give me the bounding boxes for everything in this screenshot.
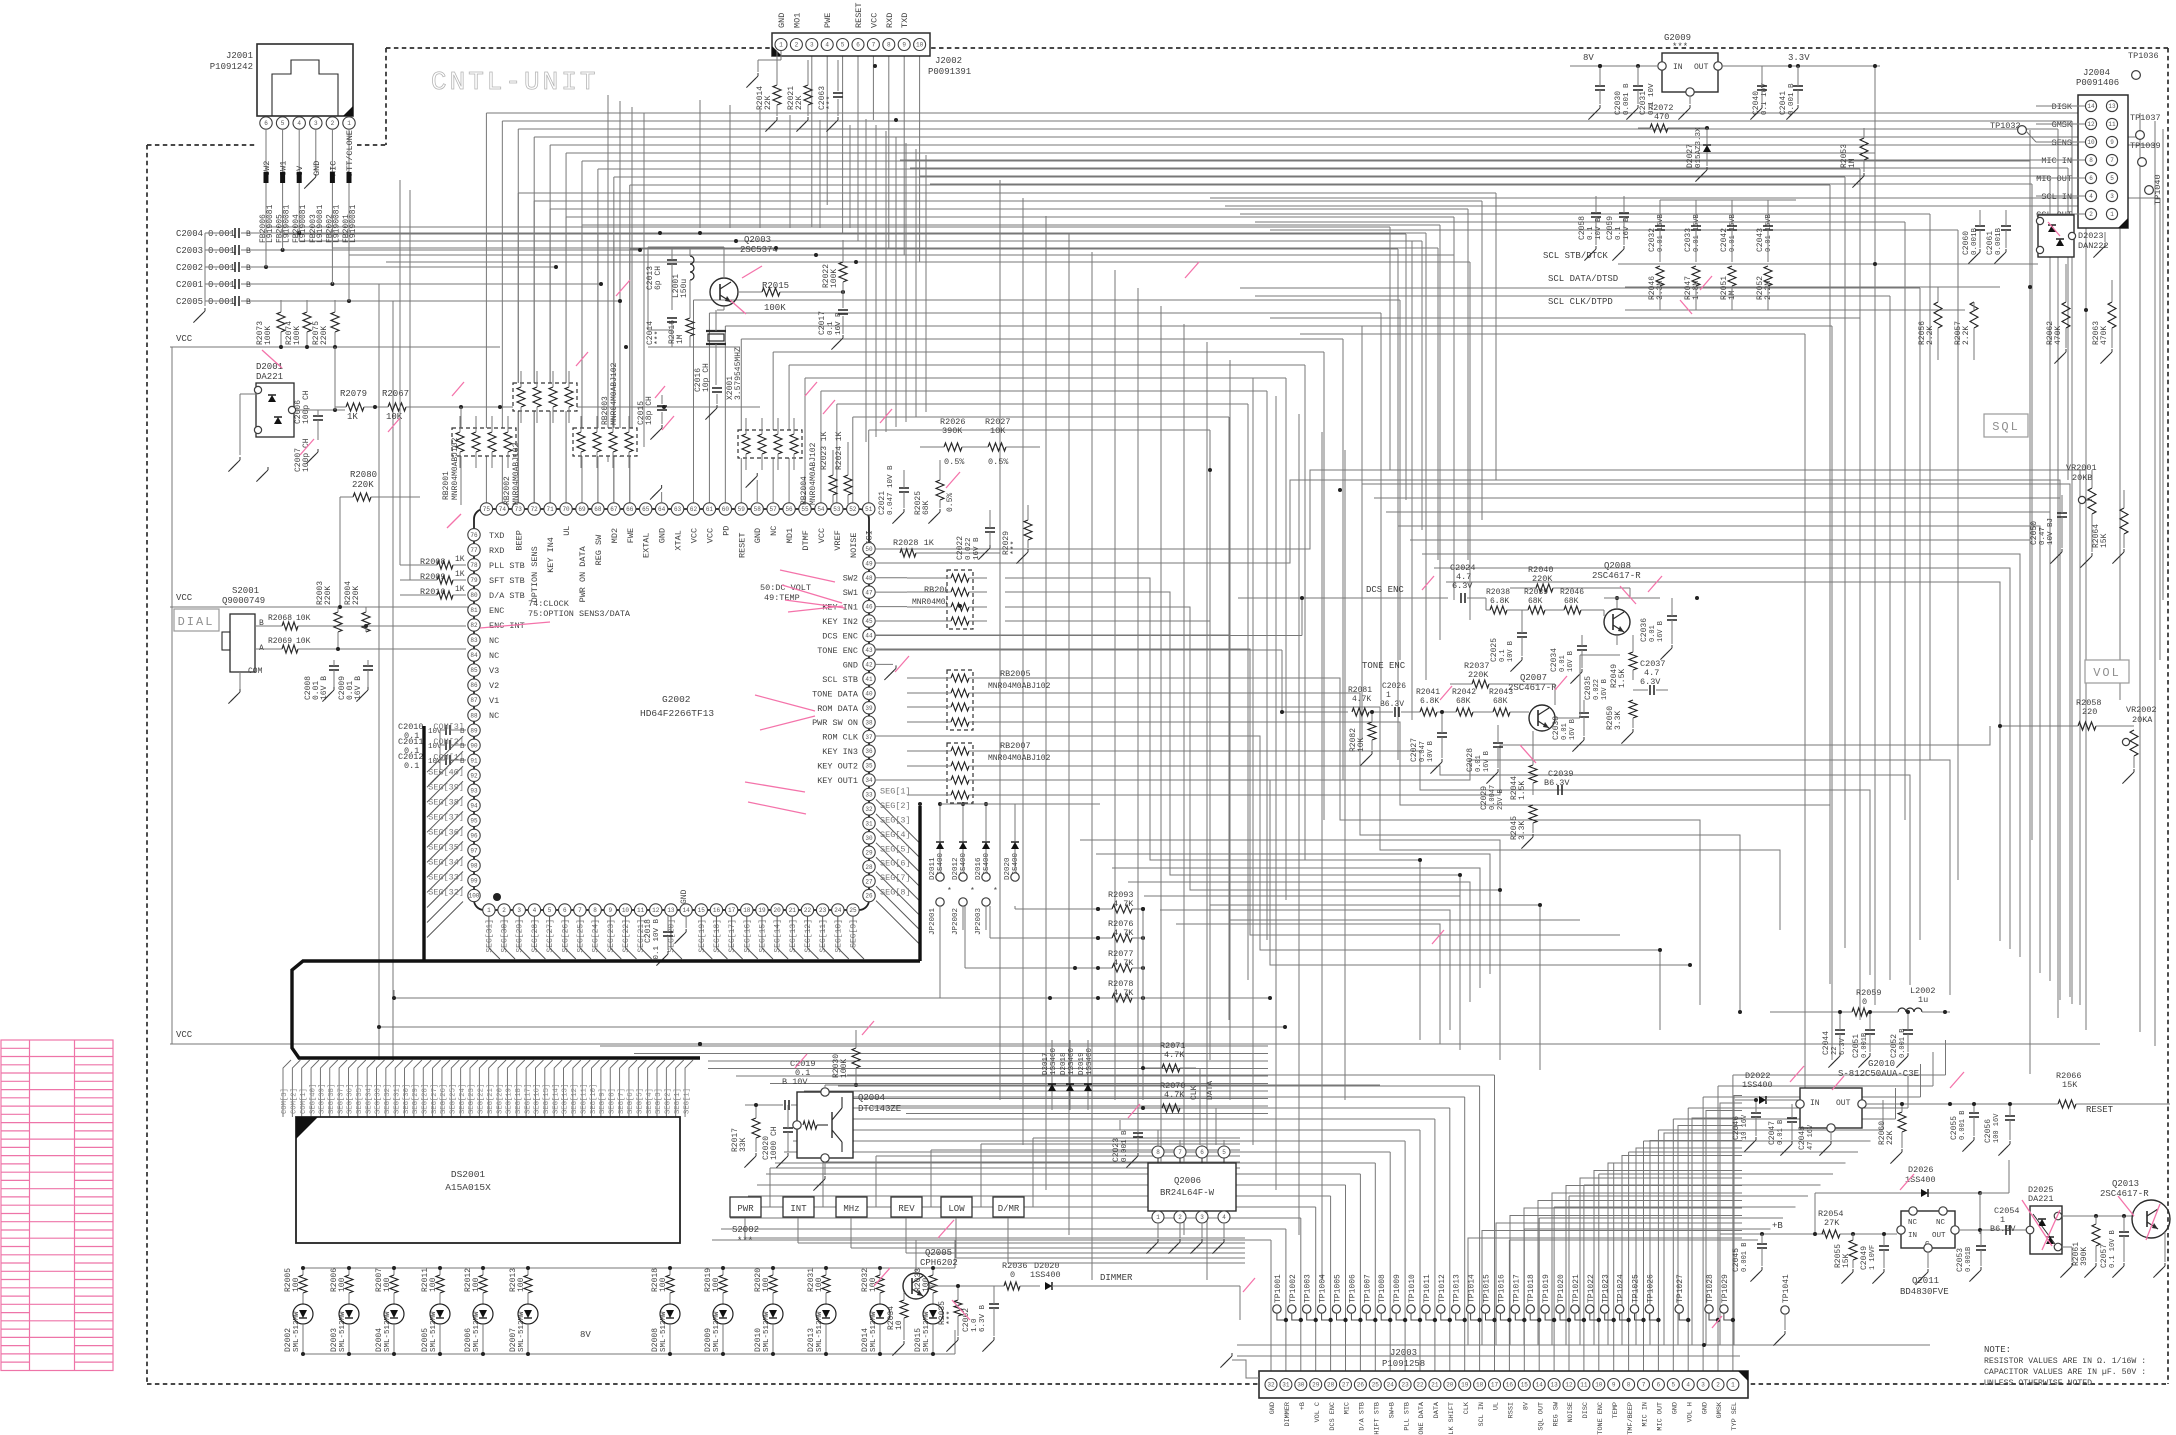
- svg-text:8: 8: [887, 42, 891, 49]
- svg-text:SEG[40]: SEG[40]: [309, 1084, 317, 1114]
- svg-text:22K: 22K: [795, 95, 804, 110]
- svg-text:RXD: RXD: [885, 13, 895, 28]
- svg-text:TP1036: TP1036: [2128, 51, 2159, 61]
- svg-text:SEG[38]: SEG[38]: [428, 797, 464, 807]
- svg-text:95: 95: [470, 817, 478, 824]
- svg-text:18p CH: 18p CH: [645, 396, 654, 425]
- svg-text:100: 100: [517, 1277, 526, 1292]
- svg-text:SEG[9]: SEG[9]: [849, 919, 858, 948]
- svg-text:C2048: C2048: [1798, 1126, 1807, 1150]
- svg-text:75:OPTION SENS3/DATA: 75:OPTION SENS3/DATA: [528, 609, 631, 619]
- svg-text:DCS ENC: DCS ENC: [822, 632, 858, 642]
- svg-text:62: 62: [690, 506, 698, 513]
- svg-text:37: 37: [865, 734, 873, 741]
- svg-text:53: 53: [833, 506, 841, 513]
- svg-text:VCC: VCC: [817, 528, 827, 543]
- svg-text:IN: IN: [1908, 1232, 1917, 1240]
- svg-text:27K: 27K: [1824, 1218, 1840, 1228]
- svg-text:35: 35: [865, 763, 873, 770]
- svg-text:R2041: R2041: [1416, 688, 1440, 697]
- svg-text:SEG[40]: SEG[40]: [428, 767, 464, 777]
- svg-text:16V B: 16V B: [835, 312, 843, 335]
- svg-text:61: 61: [706, 506, 714, 513]
- svg-text:TONE ENC: TONE ENC: [1362, 661, 1406, 671]
- svg-text:VCC: VCC: [176, 1030, 193, 1040]
- svg-text:0.022: 0.022: [965, 537, 973, 560]
- svg-text:90: 90: [470, 742, 478, 749]
- svg-text:16: 16: [713, 907, 721, 914]
- svg-text:SEG[16]: SEG[16]: [534, 1084, 542, 1114]
- svg-text:6: 6: [856, 42, 860, 49]
- svg-text:V2: V2: [489, 681, 499, 691]
- svg-text:100: 100: [762, 1277, 771, 1292]
- svg-text:SCL STB: SCL STB: [822, 675, 858, 685]
- svg-text:0: 0: [1010, 1270, 1015, 1280]
- svg-text:5: 5: [1222, 1149, 1226, 1156]
- svg-text:0.1: 0.1: [827, 321, 835, 335]
- svg-text:D2005: D2005: [421, 1328, 430, 1352]
- svg-text:100: 100: [869, 1277, 878, 1292]
- svg-text:C2029: C2029: [1480, 786, 1489, 810]
- svg-text:JP2003: JP2003: [975, 907, 983, 935]
- svg-text:10K: 10K: [296, 637, 311, 646]
- svg-text:MIC IN: MIC IN: [1642, 1402, 1650, 1426]
- svg-text:D2004: D2004: [375, 1328, 384, 1352]
- svg-text:L9190081: L9190081: [332, 204, 341, 243]
- svg-text:23: 23: [1401, 1382, 1409, 1389]
- svg-text:10: 10: [622, 907, 630, 914]
- svg-text:3: 3: [810, 42, 814, 49]
- svg-text:SEG[13]: SEG[13]: [789, 919, 798, 953]
- svg-text:GND: GND: [1672, 1402, 1680, 1414]
- svg-text:NC: NC: [489, 711, 499, 721]
- svg-text:63: 63: [674, 506, 682, 513]
- svg-text:6: 6: [2089, 175, 2093, 182]
- svg-text:015AZ3.3X: 015AZ3.3X: [1695, 127, 1703, 168]
- svg-text:SEG[28]: SEG[28]: [531, 919, 540, 953]
- svg-text:31: 31: [1282, 1382, 1290, 1389]
- svg-text:0.1 10V B: 0.1 10V B: [2109, 1230, 2117, 1268]
- svg-text:100: 100: [469, 893, 480, 900]
- svg-text:C2023: C2023: [1112, 1138, 1121, 1162]
- svg-text:TP1004: TP1004: [1319, 1274, 1328, 1303]
- svg-text:4: 4: [297, 120, 301, 127]
- svg-text:SML-512MW: SML-512MW: [763, 1311, 771, 1352]
- svg-text:0.001B: 0.001B: [1965, 1247, 1973, 1272]
- svg-text:9: 9: [608, 907, 612, 914]
- svg-text:TYP SEL: TYP SEL: [1731, 1402, 1739, 1431]
- svg-text:R2046: R2046: [1560, 588, 1584, 597]
- svg-text:DIMMER: DIMMER: [1100, 1273, 1133, 1283]
- svg-text:***: ***: [1672, 42, 1688, 52]
- svg-text:MNR04M0ABJ102: MNR04M0ABJ102: [451, 437, 460, 500]
- svg-text:SEG[6]: SEG[6]: [880, 859, 911, 869]
- svg-text:JP2001: JP2001: [929, 907, 937, 935]
- svg-text:C2036: C2036: [1640, 618, 1649, 642]
- svg-text:28: 28: [865, 864, 873, 871]
- svg-text:+B: +B: [1299, 1402, 1307, 1410]
- svg-text:TP1020: TP1020: [1557, 1274, 1566, 1303]
- svg-text:COM[1]: COM[1]: [300, 1088, 308, 1114]
- svg-text:4.7K: 4.7K: [1352, 695, 1371, 704]
- svg-text:SCL IN: SCL IN: [2041, 192, 2072, 202]
- svg-text:TXD: TXD: [900, 13, 910, 28]
- svg-text:19: 19: [1461, 1382, 1469, 1389]
- svg-text:SEG[35]: SEG[35]: [428, 842, 464, 852]
- svg-text:2SC4617-R: 2SC4617-R: [1592, 571, 1641, 581]
- svg-text:21: 21: [789, 907, 797, 914]
- svg-text:12: 12: [652, 907, 660, 914]
- svg-text:R2079: R2079: [340, 389, 367, 399]
- svg-text:R2067: R2067: [382, 389, 409, 399]
- svg-text:SEG[11]: SEG[11]: [580, 1084, 588, 1114]
- svg-text:C2028: C2028: [1466, 748, 1475, 772]
- svg-text:100K: 100K: [830, 269, 839, 288]
- svg-text:8: 8: [1156, 1149, 1160, 1156]
- svg-text:C2032: C2032: [1648, 228, 1657, 252]
- svg-text:D/MR: D/MR: [998, 1204, 1020, 1214]
- svg-text:COM[3]: COM[3]: [281, 1088, 289, 1114]
- svg-text:RXD: RXD: [489, 546, 504, 556]
- svg-text:R2080: R2080: [350, 470, 377, 480]
- svg-text:24: 24: [1387, 1382, 1395, 1389]
- svg-text:10: 10: [916, 42, 924, 49]
- svg-text:72: 72: [531, 506, 539, 513]
- svg-text:TP1041: TP1041: [1782, 1274, 1791, 1303]
- svg-text:19: 19: [758, 907, 766, 914]
- svg-text:1 10VF: 1 10VF: [1869, 1245, 1877, 1270]
- svg-text:L9190081: L9190081: [299, 204, 308, 243]
- svg-text:MHz: MHz: [843, 1204, 859, 1214]
- svg-text:TONE ENC: TONE ENC: [817, 646, 858, 656]
- svg-text:4: 4: [533, 907, 537, 914]
- svg-text:1M: 1M: [676, 334, 685, 344]
- svg-text:Q2007: Q2007: [1520, 673, 1547, 683]
- svg-text:C2061: C2061: [1986, 231, 1995, 255]
- svg-text:TP1018: TP1018: [1527, 1274, 1536, 1303]
- svg-text:SEG[26]: SEG[26]: [440, 1084, 448, 1114]
- svg-text:81: 81: [470, 607, 478, 614]
- svg-text:TP1003: TP1003: [1304, 1274, 1313, 1303]
- svg-text:C2038: C2038: [1552, 716, 1561, 740]
- svg-text:0.001: 0.001: [208, 246, 235, 256]
- svg-text:84: 84: [470, 652, 478, 659]
- svg-text:6: 6: [1657, 1382, 1661, 1389]
- svg-text:10: 10: [2087, 139, 2095, 146]
- svg-text:66: 66: [626, 506, 634, 513]
- svg-text:C2025: C2025: [1490, 638, 1499, 662]
- svg-text:B6.3V: B6.3V: [1380, 700, 1404, 709]
- svg-text:39: 39: [865, 705, 873, 712]
- svg-text:SEG[5]: SEG[5]: [880, 844, 911, 854]
- svg-text:D2009: D2009: [704, 1328, 713, 1352]
- svg-text:B: B: [246, 298, 251, 307]
- svg-text:C2046: C2046: [1732, 1116, 1741, 1140]
- svg-text:J2004: J2004: [2083, 68, 2110, 78]
- svg-text:RB2004: RB2004: [800, 476, 809, 505]
- svg-text:9: 9: [1612, 1382, 1616, 1389]
- svg-text:65: 65: [642, 506, 650, 513]
- svg-text:SEG[8]: SEG[8]: [608, 1088, 616, 1114]
- svg-text:56: 56: [785, 506, 793, 513]
- svg-text:G2002: G2002: [662, 694, 691, 705]
- svg-text:13: 13: [667, 907, 675, 914]
- svg-text:0.5%: 0.5%: [988, 457, 1009, 467]
- svg-text:CLK: CLK: [1463, 1401, 1471, 1414]
- svg-text:SEG[5]: SEG[5]: [637, 1088, 645, 1114]
- svg-text:PWE: PWE: [823, 13, 833, 28]
- svg-text:2: 2: [331, 120, 335, 127]
- svg-text:RESISTOR VALUES ARE IN Ω. 1/16: RESISTOR VALUES ARE IN Ω. 1/16W :: [1984, 1356, 2146, 1366]
- svg-text:SEG[1]: SEG[1]: [683, 1088, 691, 1114]
- svg-text:R2024 1K: R2024 1K: [835, 431, 844, 470]
- svg-text:SML-512MW: SML-512MW: [870, 1311, 878, 1352]
- svg-text:RB2001: RB2001: [442, 471, 451, 500]
- svg-text:D2002: D2002: [284, 1328, 293, 1352]
- svg-text:VCC: VCC: [869, 13, 879, 28]
- svg-text:0.1: 0.1: [1615, 226, 1623, 240]
- svg-text:0.0047: 0.0047: [1489, 785, 1497, 810]
- svg-text:9: 9: [2110, 139, 2114, 146]
- svg-text:C2005: C2005: [176, 297, 203, 307]
- svg-text:SML-512MW: SML-512MW: [518, 1311, 526, 1352]
- svg-text:SEG[35]: SEG[35]: [356, 1084, 364, 1114]
- svg-text:SEG[31]: SEG[31]: [393, 1084, 401, 1114]
- svg-text:KEY IN2: KEY IN2: [822, 617, 858, 627]
- svg-text:B: B: [246, 247, 251, 256]
- svg-text:BD4830FVE: BD4830FVE: [1900, 1287, 1949, 1297]
- svg-text:DATA: DATA: [1433, 1401, 1441, 1418]
- svg-text:TXD: TXD: [489, 531, 504, 541]
- svg-text:6: 6: [1200, 1149, 1204, 1156]
- svg-text:10 16V: 10 16V: [1741, 1114, 1749, 1140]
- svg-text:64: 64: [658, 506, 666, 513]
- svg-text:D2014: D2014: [861, 1328, 870, 1352]
- svg-text:Q2006: Q2006: [1174, 1176, 1201, 1186]
- svg-text:SW+B: SW+B: [1388, 1402, 1396, 1418]
- svg-text:0.1 10V B: 0.1 10V B: [653, 919, 661, 960]
- svg-text:67: 67: [610, 506, 618, 513]
- svg-text:10: 10: [895, 1320, 904, 1330]
- svg-text:KEY OUT1: KEY OUT1: [817, 776, 858, 786]
- svg-text:SEG[19]: SEG[19]: [698, 919, 707, 953]
- svg-text:78: 78: [470, 562, 478, 569]
- svg-text:38: 38: [865, 719, 873, 726]
- svg-text:0.001 B: 0.001 B: [1788, 83, 1796, 115]
- svg-text:SEG[22]: SEG[22]: [478, 1084, 486, 1114]
- svg-text:MIC OUT: MIC OUT: [2036, 174, 2072, 184]
- svg-text:DTMF/BEEP: DTMF/BEEP: [1627, 1402, 1635, 1435]
- svg-text:D/A STB: D/A STB: [1359, 1402, 1367, 1431]
- svg-text:L9190081: L9190081: [316, 204, 325, 243]
- svg-text:27: 27: [1342, 1382, 1350, 1389]
- svg-text:CLK SHIFT: CLK SHIFT: [1448, 1402, 1456, 1435]
- svg-text:D2027: D2027: [1686, 144, 1695, 168]
- svg-text:76: 76: [470, 532, 478, 539]
- svg-text:DISK: DISK: [2052, 102, 2073, 112]
- svg-text:0.001B: 0.001B: [1861, 1033, 1869, 1058]
- svg-text:SEG[34]: SEG[34]: [365, 1084, 373, 1114]
- svg-text:TEMP: TEMP: [1612, 1402, 1620, 1418]
- svg-text:13: 13: [2108, 103, 2116, 110]
- svg-text:16V B: 16V B: [973, 537, 981, 560]
- svg-text:VOL H: VOL H: [1686, 1402, 1694, 1422]
- svg-text:C2055: C2055: [1950, 1116, 1959, 1140]
- svg-text:C2041: C2041: [1779, 91, 1788, 115]
- svg-text:20: 20: [774, 907, 782, 914]
- svg-text:SEG[23]: SEG[23]: [607, 919, 616, 953]
- svg-text:SML-512MW: SML-512MW: [713, 1311, 721, 1352]
- svg-text:C2001: C2001: [176, 280, 203, 290]
- svg-text:MNR04M0ABJ102: MNR04M0ABJ102: [988, 754, 1051, 763]
- svg-text:SEG[17]: SEG[17]: [524, 1084, 532, 1114]
- svg-text:TP1015: TP1015: [1483, 1274, 1492, 1303]
- svg-text:0.1: 0.1: [1499, 649, 1507, 662]
- svg-text:220K: 220K: [1468, 670, 1489, 680]
- svg-text:FWE: FWE: [626, 528, 636, 543]
- svg-text:45: 45: [865, 618, 873, 625]
- svg-text:Q2005: Q2005: [925, 1248, 952, 1258]
- svg-text:16: 16: [1506, 1382, 1514, 1389]
- svg-text:6: 6: [264, 120, 268, 127]
- svg-text:11: 11: [637, 907, 645, 914]
- svg-text:SEG[31]: SEG[31]: [485, 919, 494, 953]
- svg-text:VREF: VREF: [833, 530, 843, 550]
- svg-text:KEY OUT2: KEY OUT2: [817, 762, 858, 772]
- svg-text:SEG[7]: SEG[7]: [618, 1088, 626, 1114]
- svg-text:VCC: VCC: [705, 528, 715, 543]
- svg-text:*: *: [970, 887, 975, 896]
- svg-text:B: B: [246, 230, 251, 239]
- svg-text:7: 7: [872, 42, 876, 49]
- svg-text:1000 CH: 1000 CH: [770, 1126, 779, 1160]
- svg-text:100 16V: 100 16V: [1993, 1113, 2001, 1143]
- svg-text:SW2: SW2: [843, 574, 858, 584]
- svg-text:SQL: SQL: [1992, 420, 2020, 434]
- svg-text:SEG[39]: SEG[39]: [319, 1084, 327, 1114]
- svg-text:1K: 1K: [455, 570, 465, 579]
- svg-text:C2027: C2027: [1410, 738, 1419, 762]
- svg-text:MNR04M0ABJ102: MNR04M0ABJ102: [610, 362, 619, 425]
- svg-text:*: *: [947, 887, 952, 896]
- svg-text:SEG[18]: SEG[18]: [515, 1084, 523, 1114]
- svg-text:TONE DATA: TONE DATA: [1418, 1401, 1426, 1435]
- svg-text:SQL OUT: SQL OUT: [1537, 1402, 1545, 1431]
- svg-text:NC: NC: [489, 651, 499, 661]
- svg-text:82: 82: [470, 622, 478, 629]
- svg-text:96: 96: [470, 833, 478, 840]
- svg-text:2SC5374: 2SC5374: [740, 245, 778, 255]
- svg-text:14: 14: [1536, 1382, 1544, 1389]
- svg-text:10K: 10K: [990, 426, 1006, 436]
- svg-text:SEG[29]: SEG[29]: [516, 919, 525, 953]
- svg-text:68: 68: [594, 506, 602, 513]
- svg-text:J2002: J2002: [935, 56, 962, 66]
- svg-text:JP2002: JP2002: [952, 908, 960, 935]
- svg-text:0.047 10V B: 0.047 10V B: [887, 465, 895, 515]
- svg-text:SML-512MW: SML-512MW: [384, 1311, 392, 1352]
- svg-text:0.001: 0.001: [208, 297, 235, 307]
- svg-text:SCL STB/DTCK: SCL STB/DTCK: [1543, 251, 1608, 261]
- svg-text:OUT: OUT: [1836, 1099, 1851, 1108]
- svg-text:10p CH: 10p CH: [702, 363, 711, 392]
- svg-text:SEG[28]: SEG[28]: [421, 1084, 429, 1114]
- svg-text:SEG[19]: SEG[19]: [506, 1084, 514, 1114]
- svg-text:SW1: SW1: [843, 588, 858, 598]
- svg-text:MO1: MO1: [792, 13, 802, 28]
- svg-text:VCC: VCC: [689, 528, 699, 543]
- svg-text:SEG[7]: SEG[7]: [880, 873, 911, 883]
- svg-text:SEG[21]: SEG[21]: [487, 1084, 495, 1114]
- svg-text:IN: IN: [1673, 63, 1683, 72]
- svg-text:MNR04M0ABJ102: MNR04M0ABJ102: [512, 442, 521, 505]
- svg-text:91: 91: [470, 757, 478, 764]
- svg-text:68K: 68K: [922, 500, 931, 515]
- svg-text:22: 22: [1831, 1047, 1839, 1055]
- svg-text:***: ***: [1010, 541, 1019, 555]
- svg-text:TP1016: TP1016: [1497, 1274, 1506, 1303]
- svg-text:0.001 B: 0.001 B: [1623, 83, 1631, 115]
- svg-text:68K: 68K: [1528, 597, 1543, 606]
- svg-text:COM[2]: COM[2]: [291, 1088, 299, 1114]
- svg-text:0.01 16VB: 0.01 16VB: [1657, 214, 1665, 252]
- svg-text:SEG[14]: SEG[14]: [774, 919, 783, 953]
- svg-text:SEG[3]: SEG[3]: [655, 1088, 663, 1114]
- svg-text:3.3K: 3.3K: [1518, 821, 1527, 840]
- svg-text:3.3K: 3.3K: [1614, 711, 1623, 730]
- svg-text:2SC4617-R: 2SC4617-R: [2100, 1189, 2149, 1199]
- svg-text:IN: IN: [1810, 1099, 1820, 1108]
- svg-text:Q9000749: Q9000749: [222, 596, 265, 606]
- svg-text:4.7K: 4.7K: [1164, 1090, 1185, 1100]
- svg-text:100p CH: 100p CH: [302, 390, 311, 424]
- svg-text:R2028 1K: R2028 1K: [893, 538, 935, 548]
- svg-text:16V B: 16V B: [1567, 651, 1575, 672]
- svg-text:SEG[34]: SEG[34]: [428, 857, 464, 867]
- svg-text:TP1001: TP1001: [1274, 1274, 1283, 1303]
- svg-text:SEG[37]: SEG[37]: [428, 812, 464, 822]
- svg-text:J2001: J2001: [226, 51, 253, 61]
- svg-text:36: 36: [865, 748, 873, 755]
- svg-text:20: 20: [1446, 1382, 1454, 1389]
- svg-text:NC: NC: [769, 526, 779, 536]
- svg-text:SEG[4]: SEG[4]: [880, 830, 911, 840]
- svg-text:OPTION SENS: OPTION SENS: [530, 546, 540, 602]
- svg-text:2: 2: [1716, 1382, 1720, 1389]
- svg-text:13: 13: [1550, 1382, 1558, 1389]
- svg-text:SML-512MW: SML-512MW: [430, 1311, 438, 1352]
- svg-text:C2060: C2060: [1962, 231, 1971, 255]
- svg-text:0.01: 0.01: [1559, 655, 1567, 672]
- svg-text:75: 75: [483, 506, 491, 513]
- svg-text:3: 3: [517, 907, 521, 914]
- svg-text:85: 85: [470, 667, 478, 674]
- svg-text:C2022: C2022: [956, 536, 965, 560]
- svg-text:LOW: LOW: [948, 1204, 965, 1214]
- svg-text:GND: GND: [1701, 1402, 1709, 1414]
- svg-text:14: 14: [2087, 103, 2095, 110]
- svg-text:SEG[25]: SEG[25]: [576, 919, 585, 953]
- svg-text:86: 86: [470, 682, 478, 689]
- svg-text:C2021: C2021: [878, 491, 887, 515]
- svg-text:VCC: VCC: [176, 593, 193, 603]
- svg-text:1: 1: [1731, 1382, 1735, 1389]
- svg-text:220K: 220K: [352, 480, 374, 490]
- svg-text:C2030: C2030: [1614, 91, 1623, 115]
- svg-text:220K: 220K: [324, 586, 333, 605]
- svg-text:32: 32: [1267, 1382, 1275, 1389]
- svg-text:OUT: OUT: [1694, 63, 1709, 72]
